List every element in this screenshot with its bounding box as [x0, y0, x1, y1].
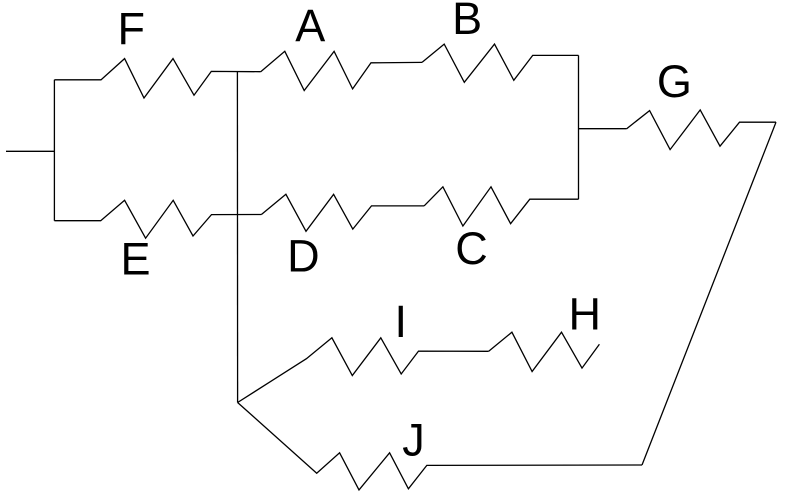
- svg-text:A: A: [295, 0, 325, 51]
- svg-text:B: B: [452, 0, 482, 44]
- svg-text:H: H: [569, 289, 602, 340]
- svg-text:G: G: [657, 56, 692, 107]
- svg-text:J: J: [402, 415, 425, 466]
- svg-text:I: I: [395, 296, 408, 347]
- svg-text:C: C: [455, 223, 488, 274]
- svg-text:E: E: [121, 234, 151, 285]
- svg-text:D: D: [287, 231, 320, 282]
- svg-text:F: F: [118, 3, 146, 54]
